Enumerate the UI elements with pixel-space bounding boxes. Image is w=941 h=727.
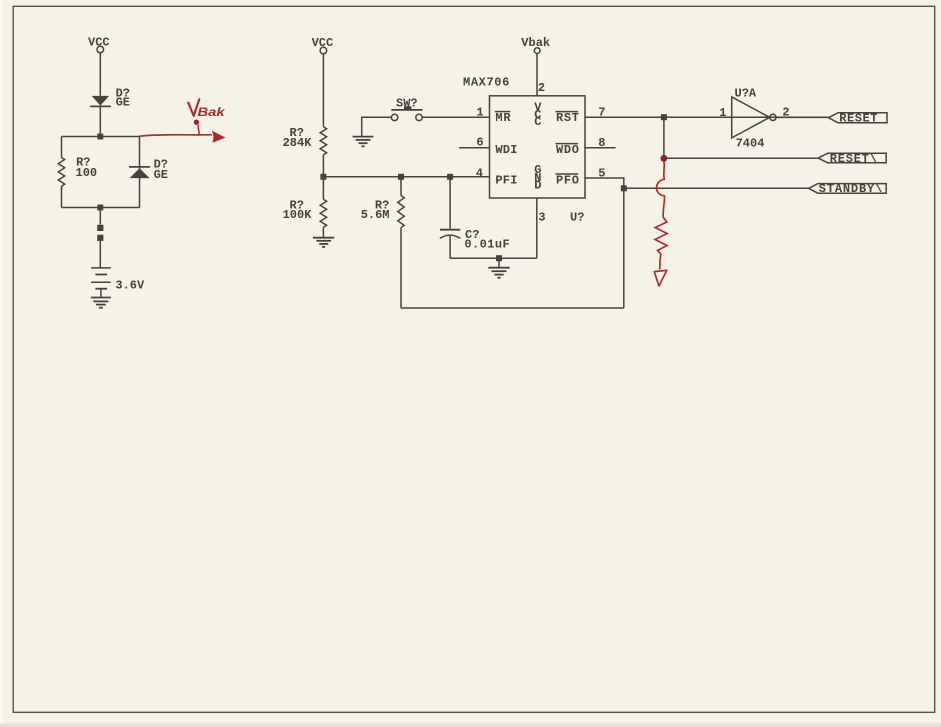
wire ground to switch: [362, 117, 392, 136]
svg-text:3: 3: [538, 211, 545, 225]
wire junction down to red dot: [663, 117, 665, 156]
node flag STANDBY\: [809, 182, 887, 196]
capacitor C? 0.01uF (C1): [440, 177, 510, 258]
diode D? GE (D2): [129, 157, 168, 182]
wire to connector: [99, 208, 101, 225]
svg-text:RST: RST: [556, 111, 579, 125]
svg-text:Bak: Bak: [198, 105, 227, 119]
svg-text:5: 5: [598, 166, 605, 180]
resistor R? 100K (R3): [283, 199, 327, 228]
node Vbak (red annotation): [188, 99, 226, 135]
ground (C1/GND): [488, 268, 509, 278]
inverter U?A 7404: [719, 86, 789, 150]
svg-text:PFI: PFI: [495, 174, 517, 188]
svg-text:0.01uF: 0.01uF: [464, 238, 509, 252]
ground (R3): [313, 238, 334, 247]
svg-text:WDO: WDO: [556, 143, 579, 157]
wire rail up to PFO node: [623, 188, 625, 308]
power symbol VCC (middle): [312, 36, 334, 54]
wire WDO stub pin8: [585, 147, 616, 149]
svg-text:6: 6: [476, 136, 483, 150]
wire red squiggle with hop over STANDBY: [656, 162, 664, 218]
wire RST pin7 row: [585, 116, 829, 118]
wire pin3 vertical: [536, 198, 538, 258]
wire red Vbak: [140, 135, 213, 137]
wire bottom rail: [401, 307, 624, 309]
svg-text:1: 1: [719, 106, 726, 120]
connector square pin A: [97, 225, 103, 231]
svg-text:3.6V: 3.6V: [115, 279, 145, 293]
wire switch to MR pin1: [422, 116, 489, 118]
power symbol VCC (left): [88, 36, 110, 53]
IC U? MAX706: [463, 76, 585, 225]
node junction at R4 top: [398, 174, 404, 180]
wire WDI stub pin6: [459, 147, 489, 149]
svg-text:MAX706: MAX706: [463, 76, 509, 90]
node flag RESET\: [818, 152, 886, 166]
wire box top: [62, 136, 140, 138]
node junction at C1 top: [447, 174, 453, 180]
svg-text:RESET\: RESET\: [830, 152, 877, 166]
diode D? GE (D1): [90, 86, 130, 109]
wire D1 to node: [99, 106, 101, 136]
svg-text:U?A: U?A: [735, 86, 757, 100]
ground (battery): [91, 298, 111, 308]
wire stub to ground: [498, 258, 500, 268]
node red junction dot: [661, 155, 668, 162]
switch SW?: [391, 96, 422, 120]
power symbol Vbak (top of IC): [521, 36, 550, 54]
svg-text:MR: MR: [495, 111, 511, 125]
node junction RST tap: [661, 114, 667, 120]
svg-text:D: D: [534, 179, 541, 193]
wire R2 to node: [322, 155, 324, 177]
svg-text:100K: 100K: [283, 208, 313, 222]
node junction bottom of box: [97, 205, 103, 211]
node junction top of box: [97, 134, 103, 140]
wire battery to ground: [100, 289, 102, 298]
resistor R? 100 (R1): [58, 137, 97, 208]
svg-text:GE: GE: [116, 96, 130, 110]
wire connector to battery: [99, 241, 101, 268]
node junction PFO/standby: [621, 185, 627, 191]
wire R3 to ground: [322, 227, 324, 238]
node flag RESET: [829, 111, 888, 125]
wire inverter output: [776, 116, 828, 118]
battery BT 3.6V: [91, 268, 145, 293]
svg-text:100: 100: [76, 166, 98, 180]
svg-text:U?: U?: [570, 211, 584, 225]
connector square pin B: [97, 235, 103, 241]
wire VCC to D1: [99, 53, 101, 96]
svg-text:STANDBY\: STANDBY\: [819, 182, 882, 196]
svg-text:7: 7: [598, 106, 605, 120]
svg-text:GE: GE: [154, 168, 168, 182]
wire STANDBY row: [624, 187, 809, 189]
svg-text:4: 4: [476, 166, 483, 180]
wire R4 down to bottom rail: [400, 228, 402, 308]
wire PFO pin5: [585, 178, 624, 188]
svg-text:8: 8: [598, 136, 605, 150]
svg-text:7404: 7404: [736, 137, 765, 151]
svg-text:2: 2: [538, 81, 545, 95]
svg-text:C: C: [534, 115, 541, 129]
node junction ground tap: [496, 255, 502, 261]
wire node to R3: [322, 177, 324, 199]
svg-text:PFO: PFO: [556, 174, 579, 188]
wire box bottom: [62, 207, 140, 209]
red arrowhead (open): [654, 270, 667, 286]
ground (switch): [353, 137, 374, 147]
resistor R? 5.6M (R4): [361, 177, 405, 228]
node junction PFI divider: [320, 174, 326, 180]
wire PFI row: [323, 176, 489, 178]
wire box right branch: [139, 137, 141, 208]
svg-text:284K: 284K: [283, 136, 313, 150]
wire RESET-bar row: [667, 157, 819, 159]
red arrowhead: [212, 131, 226, 143]
resistor red hand-drawn zigzag: [655, 217, 667, 269]
svg-text:5.6M: 5.6M: [361, 208, 390, 222]
svg-text:WDI: WDI: [495, 143, 517, 157]
resistor R? 284K (R2): [283, 126, 327, 155]
wire cap bottom rail to pin3: [450, 257, 537, 259]
svg-text:1: 1: [476, 105, 483, 119]
wire VCC to R2: [322, 54, 324, 127]
svg-text:RESET: RESET: [839, 111, 877, 125]
wire Vbak to pin2: [536, 54, 538, 96]
